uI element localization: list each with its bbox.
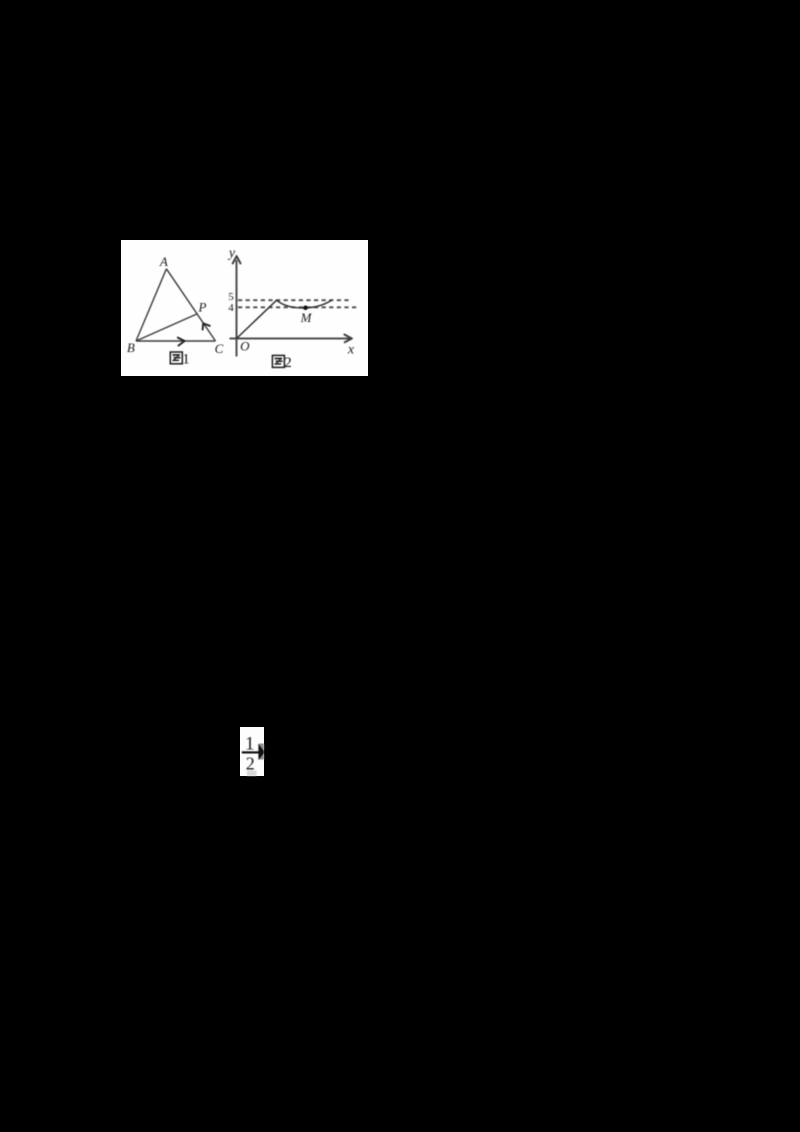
caption 图2	[272, 355, 284, 367]
svg-text:y: y	[227, 246, 236, 261]
arrow on BC (open barb)	[178, 338, 185, 346]
svg-text:4: 4	[228, 302, 234, 314]
svg-text:O: O	[240, 339, 250, 354]
svg-text:1: 1	[245, 733, 255, 754]
svg-text:x: x	[347, 342, 355, 357]
figure panel	[121, 240, 368, 376]
arrow on CP (open barb)	[203, 323, 210, 329]
svg-text:1: 1	[182, 351, 190, 367]
triangle side BC	[136, 340, 216, 342]
x-axis	[230, 338, 352, 340]
svg-text:P: P	[198, 300, 207, 315]
cevian BP	[136, 314, 197, 341]
svg-text:B: B	[127, 340, 135, 355]
triangle side AC	[166, 269, 215, 341]
dashed line y=4	[238, 306, 359, 308]
x-axis arrowhead (open barb)	[344, 335, 351, 343]
svg-text:2: 2	[284, 355, 292, 371]
arrowhead	[258, 744, 264, 760]
point M dot	[303, 306, 308, 311]
fraction 1/2 box	[240, 727, 264, 776]
y-axis	[236, 260, 238, 357]
y-axis arrowhead (open barb)	[233, 256, 241, 263]
dashed line y=5	[238, 299, 352, 301]
fraction bar	[242, 751, 259, 753]
bottom light patch	[247, 771, 257, 777]
svg-text:C: C	[215, 341, 224, 356]
svg-text:2: 2	[246, 754, 255, 774]
svg-text:M: M	[300, 310, 313, 325]
svg-text:A: A	[159, 254, 168, 269]
gray square behind arrow	[259, 744, 264, 760]
caption 图1	[170, 352, 182, 364]
triangle side AB	[136, 269, 166, 341]
graph curve	[237, 300, 333, 339]
